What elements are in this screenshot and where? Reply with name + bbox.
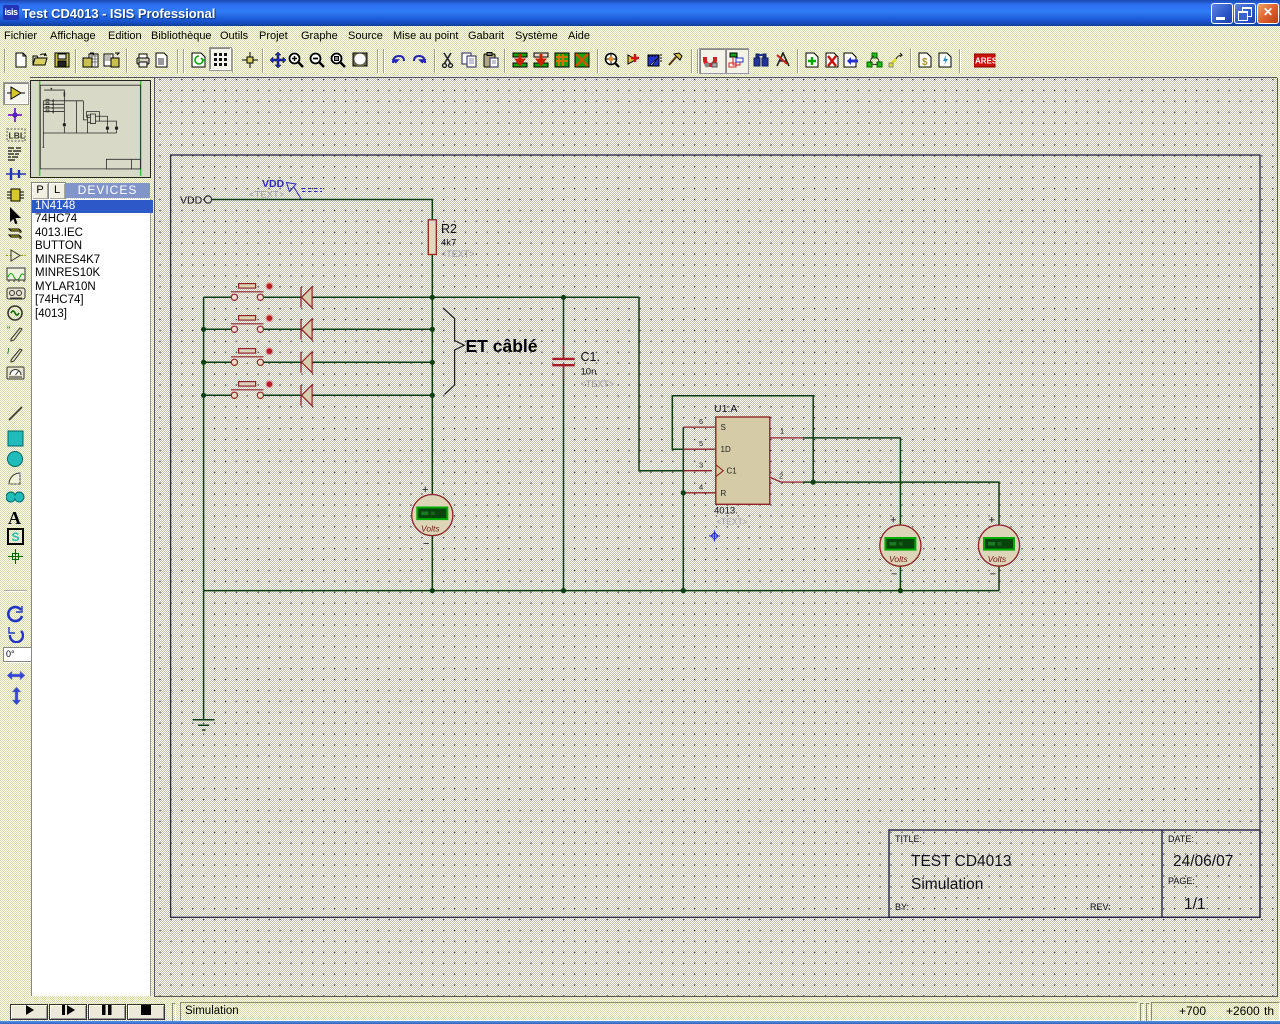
svg-text:ARES: ARES <box>975 57 996 66</box>
wire bus to voltmeter V1 <box>431 395 433 590</box>
wire S-R tie vertical <box>682 427 684 590</box>
svg-text:U1:A: U1:A <box>714 403 737 415</box>
svg-text:4k7: 4k7 <box>441 238 456 249</box>
svg-text:2: 2 <box>779 472 783 481</box>
pin stub S pin6 <box>683 426 716 428</box>
svg-text:6: 6 <box>699 417 703 426</box>
svg-text:+: + <box>422 484 428 496</box>
voltmeter V1 <box>412 484 453 550</box>
svg-text:VDD: VDD <box>262 178 285 190</box>
button SW3 <box>231 348 273 365</box>
svg-text:R: R <box>721 489 727 498</box>
node brace ET cable <box>443 308 538 395</box>
pin stub Qbar pin2 <box>770 477 803 482</box>
svg-text:1: 1 <box>780 427 784 436</box>
resistor R2 <box>428 220 474 259</box>
wire ground rail <box>204 590 999 592</box>
svg-text:5: 5 <box>699 439 703 448</box>
pin stub C1 pin3 <box>683 470 712 472</box>
svg-text:4: 4 <box>699 483 703 492</box>
svg-text:ET câblé: ET câblé <box>466 336 538 356</box>
button SW4 <box>231 381 273 398</box>
pin stub 1D pin5 <box>683 448 716 450</box>
wire left bus vertical <box>203 297 205 590</box>
overview mini schematic <box>40 85 140 169</box>
svg-text:−: − <box>423 538 429 550</box>
wire pin1 to voltmeter V2 <box>803 438 900 591</box>
wire clock from bus to U1 pin3 <box>639 297 683 470</box>
wire R2 to bus row1 <box>431 255 433 298</box>
diode D3 <box>301 352 312 373</box>
wire row1 segments <box>204 296 639 298</box>
diode D4 <box>301 385 312 406</box>
wire Q feedback loop pin2 to 1D <box>672 396 813 482</box>
origin marker <box>709 531 720 542</box>
svg-text:+: + <box>989 515 995 527</box>
voltmeter V3 <box>978 515 1019 581</box>
title block <box>889 830 1260 917</box>
svg-text:24/06/07: 24/06/07 <box>1173 853 1233 870</box>
svg-text:LBL: LBL <box>9 131 26 141</box>
svg-text:VDD: VDD <box>180 195 203 207</box>
svg-text:ʺ: ʺ <box>7 325 10 335</box>
svg-text:4013.: 4013. <box>714 506 738 517</box>
svg-text:−: − <box>990 569 996 581</box>
button SW1 <box>231 283 273 300</box>
svg-text:R2: R2 <box>441 222 457 236</box>
overview viewport strips <box>39 81 41 176</box>
svg-text:I: I <box>7 346 10 356</box>
svg-text:TITLE:: TITLE: <box>895 834 922 844</box>
ground symbol <box>193 720 215 730</box>
wire ground stem <box>203 591 205 720</box>
svg-text:−: − <box>891 569 897 581</box>
svg-text:S: S <box>721 423 726 432</box>
wire row2 segments <box>204 328 433 330</box>
wire C1 branch <box>563 297 565 590</box>
wire row3 segments <box>204 361 433 363</box>
svg-text:10n: 10n <box>581 367 597 378</box>
svg-text:<TEXT>: <TEXT> <box>581 379 615 389</box>
svg-text:BY:: BY: <box>895 902 909 912</box>
pin stub R pin4 <box>683 492 716 494</box>
svg-text:PAGE:: PAGE: <box>1168 876 1195 886</box>
wire right bus vertical <box>431 297 433 395</box>
voltmeter V2 <box>880 515 921 581</box>
capacitor C1 <box>552 345 614 389</box>
junction dots <box>201 295 903 594</box>
sheet border <box>171 155 1260 917</box>
power symbol VDD (blue) <box>249 178 322 201</box>
svg-text:<TEXT>: <TEXT> <box>249 190 285 201</box>
svg-text:+: + <box>890 515 896 527</box>
diode D2 <box>301 319 312 340</box>
wire pin2 to voltmeter V3 <box>803 482 999 590</box>
svg-text:Simulation: Simulation <box>911 876 983 893</box>
button SW2 <box>231 315 273 332</box>
svg-text:Volts: Volts <box>988 554 1007 564</box>
wire row4 segments <box>204 394 433 396</box>
svg-text:DATE:: DATE: <box>1168 834 1194 844</box>
svg-text:<TEXT>: <TEXT> <box>441 249 475 259</box>
svg-text:1/1: 1/1 <box>1184 896 1206 913</box>
svg-text:Volts: Volts <box>421 524 440 534</box>
svg-text:<TEXT>: <TEXT> <box>716 517 748 527</box>
svg-text:C1: C1 <box>727 467 738 476</box>
diode D1 <box>301 287 312 308</box>
svg-text:Volts: Volts <box>889 554 908 564</box>
svg-text:A: A <box>8 508 21 527</box>
svg-text:1D: 1D <box>721 445 731 454</box>
flip-flop U1 4013 <box>699 403 784 527</box>
svg-text:REV:: REV: <box>1090 902 1111 912</box>
svg-text:3: 3 <box>699 461 703 470</box>
svg-text:$: $ <box>922 57 928 68</box>
wire VDD rail to R2 <box>212 200 432 220</box>
svg-text:C1.: C1. <box>581 350 600 364</box>
pin stub Q pin1 <box>770 437 803 439</box>
svg-text:S: S <box>12 530 20 544</box>
svg-text:TEST CD4013: TEST CD4013 <box>911 853 1012 870</box>
terminal VDD <box>180 195 212 207</box>
